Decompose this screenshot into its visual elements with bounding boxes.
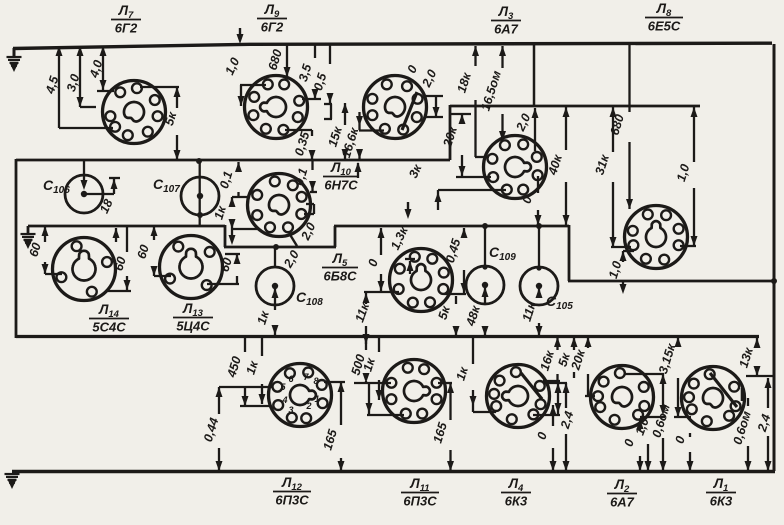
- bracket tube Л11 left: [366, 383, 405, 415]
- wire step line y106: [450, 105, 700, 108]
- ground bottom-left: [5, 474, 20, 489]
- dim 165 tube Л12: [320, 382, 345, 471]
- dim 0 tube Л4: [534, 405, 556, 471]
- wire middle bus right: [334, 225, 777, 284]
- dim 11к capacitor С105: [520, 288, 543, 336]
- bracket tube Л4 right: [533, 381, 562, 415]
- wire middle bus left: [28, 226, 225, 233]
- dim 680 tube Л9: [265, 44, 290, 77]
- label tube Л2 6А7: [607, 477, 637, 510]
- bracket pins tube Л9: [324, 104, 332, 119]
- dim 0,44 tube Л12: [201, 387, 272, 471]
- tube socket Л14: [53, 238, 116, 301]
- dim 13к tube Л1: [737, 338, 775, 376]
- capacitor С105: [520, 267, 573, 312]
- dim 2,0 bracket tube Л6: [419, 67, 443, 117]
- arrow up x358: [355, 162, 362, 178]
- tube socket Л2: [591, 366, 654, 429]
- tube socket Л11: [383, 360, 446, 423]
- tube socket Л5: [390, 249, 453, 312]
- dim 60 tube Л13 right: [207, 254, 241, 284]
- dim 11к tube Л5: [352, 292, 399, 344]
- dim 60 tube Л13 left: [134, 226, 171, 276]
- capacitor С107: [153, 176, 219, 215]
- arrow pair tube Л14: [113, 228, 120, 242]
- tube socket Л12: [269, 364, 332, 427]
- svg-text:5Ц4С: 5Ц4С: [176, 319, 210, 334]
- dim 5к tube Л4: [556, 337, 578, 378]
- svg-text:6Б8С: 6Б8С: [323, 269, 357, 284]
- capacitor С106: [43, 175, 103, 213]
- wire capacitor С105 to bus: [536, 223, 542, 271]
- label tube Л7 6Г2: [111, 3, 141, 36]
- dim 0,6ом tube Л1: [730, 398, 753, 471]
- wire right border: [773, 44, 776, 471]
- dim 1к tube Л11: [361, 337, 383, 400]
- dim 20к tube Л3: [440, 114, 491, 177]
- dim 1к capacitor С108: [255, 288, 279, 335]
- wire capacitor С109 to bus: [482, 223, 488, 270]
- wire capacitor С107 to bus: [196, 158, 203, 225]
- dim 2,0 drop tube Л3: [513, 108, 539, 151]
- svg-text:5С4С: 5С4С: [92, 320, 126, 335]
- wire middle bus dip: [224, 225, 336, 247]
- dim 0 tube Л3: [519, 176, 541, 225]
- dim 4,0 tube Л7: [87, 46, 114, 91]
- label tube Л1 6К3: [706, 476, 736, 509]
- wire box bottom edge: [16, 335, 759, 338]
- dim 48к capacitor С109: [463, 287, 488, 336]
- svg-text:3: 3: [288, 405, 293, 415]
- svg-text:6А7: 6А7: [610, 495, 635, 510]
- tube socket Л6: [364, 76, 427, 139]
- jumper bar tube Л1: [741, 388, 744, 401]
- dim 2,4 tube Л4: [543, 383, 576, 471]
- dim 450 tube Л12: [224, 337, 271, 406]
- wire stub tube Л9 to bus: [237, 28, 244, 44]
- dim 0 tube Л1: [672, 433, 693, 471]
- wire step riser x450: [449, 105, 452, 160]
- dim 4,5 tube Л7: [43, 46, 113, 128]
- tube socket Л8: [625, 206, 688, 269]
- tube socket Л10: [248, 174, 311, 237]
- dim 5к tube Л7: [140, 87, 181, 160]
- dim 16к tube Л4: [538, 337, 561, 381]
- capacitor С108: [256, 267, 323, 308]
- dim 20к tube Л4: [568, 337, 595, 396]
- dim 40к: [545, 107, 569, 225]
- svg-text:6Г2: 6Г2: [115, 21, 138, 36]
- dim 165 tube Л11: [430, 383, 454, 471]
- label tube Л9 6Г2: [257, 2, 287, 35]
- wire box left border: [15, 159, 18, 338]
- dim 3,15к tube Л2: [656, 337, 691, 417]
- dim 31к tube Л8: [593, 107, 631, 247]
- svg-text:8: 8: [313, 376, 318, 386]
- label tube Л8 6Е5С: [645, 1, 683, 34]
- tube socket Л4: [487, 365, 550, 428]
- dim 60 tube Л14 left: [26, 226, 62, 274]
- svg-text:6К3: 6К3: [505, 494, 528, 509]
- dim 500 tube Л11: [348, 337, 391, 383]
- dim 0,1 left tube Л10: [217, 162, 249, 197]
- dim 16,5ом tube Л3: [478, 46, 506, 141]
- label tube Л13 5Ц4С: [173, 301, 213, 334]
- svg-text:6К3: 6К3: [710, 494, 733, 509]
- dim 2,4 tube Л1: [755, 378, 774, 471]
- label tube Л10 6Н7С: [323, 160, 359, 193]
- svg-text:6Г2: 6Г2: [261, 20, 284, 35]
- label tube Л4 6К3: [501, 476, 531, 509]
- dim 16,6к: [339, 112, 384, 160]
- wire box top edge: [16, 159, 450, 162]
- wire drop x534: [533, 44, 536, 107]
- dim 1,3к tube Л5: [388, 224, 415, 274]
- svg-text:6А7: 6А7: [494, 22, 519, 37]
- dim 2,0 bracket tube Л10: [298, 204, 318, 243]
- dim 3,5 tube Л9: [296, 44, 321, 99]
- capacitor С109: [466, 244, 516, 304]
- dim 2,0 diag tube Л10: [281, 233, 302, 271]
- tube socket Л3: [484, 136, 547, 199]
- wire capacitor С108 to bus: [273, 244, 279, 267]
- dim 0 tube Л6: [405, 63, 421, 75]
- dim 1к tube Л10: [212, 197, 259, 245]
- label tube Л5 6Б8С: [322, 251, 358, 284]
- dim 15к: [326, 103, 349, 159]
- dim 0,5 tube Л9: [311, 44, 334, 103]
- svg-text:1: 1: [314, 394, 319, 404]
- dim 18к tube Л3: [455, 46, 489, 157]
- svg-text:4: 4: [281, 395, 287, 405]
- label tube Л3 6А7: [491, 4, 521, 37]
- label tube Л11 6П3С: [401, 476, 439, 509]
- label tube Л12 6П3С: [273, 475, 311, 508]
- label tube Л14 5С4С: [89, 302, 129, 335]
- svg-text:6П3С: 6П3С: [403, 494, 437, 509]
- dim 680 tube Л8: [607, 44, 633, 209]
- dim 0 tube Л2: [621, 419, 643, 471]
- wire stub tube Л5 to bus: [405, 202, 412, 219]
- dim 18 capacitor С106: [81, 161, 121, 216]
- dim 3к tube Л3: [406, 162, 506, 210]
- wire bottom bus: [12, 470, 775, 473]
- svg-text:2: 2: [305, 401, 311, 411]
- dim 1,0 tube Л9: [222, 55, 266, 106]
- dim 1,0 tube Л2: [633, 416, 652, 471]
- svg-text:6П3С: 6П3С: [275, 493, 309, 508]
- dim 3,0 tube Л7: [64, 46, 96, 107]
- wire top bus: [13, 43, 772, 56]
- tube socket Л9: [245, 76, 308, 139]
- dim 5к tube Л5: [436, 296, 460, 336]
- dim 0,1 right tube Л10: [292, 161, 317, 192]
- dim 60 tube Л14 right: [108, 226, 131, 291]
- tube socket Л7: [103, 81, 166, 144]
- dim 1к tube Л12: [244, 337, 266, 404]
- svg-text:6Е5С: 6Е5С: [648, 19, 681, 34]
- dim 1к tube Л4: [454, 337, 496, 412]
- tube socket Л13: [160, 236, 223, 299]
- dim 0 tube Л5: [365, 228, 384, 291]
- dim 0,35 tube Л9: [285, 129, 316, 160]
- dim 1,0 tube Л8 left: [606, 251, 634, 294]
- dim 0,45 tube Л5: [443, 228, 468, 294]
- svg-text:6Н7С: 6Н7С: [324, 178, 358, 193]
- dim 1,0 tube Л8 right: [674, 107, 698, 246]
- tube socket Л1: [682, 367, 745, 430]
- ground middle-left: [21, 234, 36, 249]
- ground top-left: [7, 57, 22, 72]
- dim 0,6ом tube Л2: [625, 374, 673, 471]
